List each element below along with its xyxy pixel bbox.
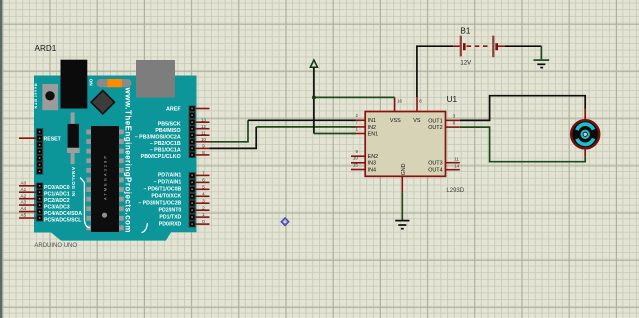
ARD1 AREF pin stub: [196, 108, 210, 110]
wire U1 OUT2 to motor bottom: [460, 127, 585, 162]
ARD1 ATmega328P chip legs: [86, 130, 123, 231]
svg-text:PD2/INT0: PD2/INT0: [159, 207, 182, 213]
svg-text:A2: A2: [21, 193, 27, 198]
ARD1 ATmega328P chip body: [91, 126, 119, 232]
svg-text:– PD7/AIN1: – PD7/AIN1: [154, 180, 182, 186]
ARD1 port B labels: [135, 121, 181, 160]
ARD1 silkscreen bracket analog: [80, 178, 90, 228]
svg-text:0: 0: [202, 219, 205, 224]
ARD1 digital pin stubs 7-0: [196, 175, 210, 224]
svg-text:5: 5: [202, 184, 205, 189]
svg-text:VS: VS: [413, 118, 421, 124]
svg-text:PC2/ADC2: PC2/ADC2: [44, 198, 70, 204]
ARD1 analog pin stubs A0-A5: [19, 186, 36, 218]
svg-text:– PB3/MOSI/OC2A: – PB3/MOSI/OC2A: [135, 134, 181, 140]
battery B1 right lead: [498, 45, 505, 47]
svg-text:PD7/AIN1: PD7/AIN1: [158, 173, 181, 179]
svg-text:2: 2: [202, 205, 205, 210]
battery B1 cell 2 long plate: [492, 36, 494, 58]
svg-text:9: 9: [202, 144, 205, 149]
ARD1 ON label: [89, 79, 94, 87]
svg-text:A1: A1: [21, 187, 27, 192]
ARD1 crystal diamond: [91, 91, 114, 114]
svg-text:13: 13: [201, 117, 207, 122]
svg-text:Reset BTN: Reset BTN: [33, 84, 38, 109]
svg-text:6: 6: [202, 178, 205, 183]
ARD1 digital pin numbers 13-8: [201, 117, 207, 155]
svg-text:3: 3: [202, 198, 205, 203]
ARD1 electrolytic capacitor: [71, 113, 75, 165]
ground symbol at battery: [534, 59, 550, 61]
svg-text:www.TheEngineeringProjects.com: www.TheEngineeringProjects.com: [124, 87, 133, 233]
U1 pin name labels right: [428, 118, 442, 173]
svg-text:EN2: EN2: [368, 154, 379, 160]
svg-text:8: 8: [419, 98, 422, 103]
ARD1 digital pin numbers 7-0: [202, 171, 205, 225]
ARD1 silkscreen bracket digital lower: [142, 223, 148, 233]
svg-text:PC5/ADC5/SCL: PC5/ADC5/SCL: [44, 217, 82, 223]
svg-text:PC0/ADC0: PC0/ADC0: [44, 185, 70, 191]
ARD1 analog pin names A0-A5: [21, 180, 27, 217]
svg-text:ON: ON: [89, 79, 94, 87]
ARD1 ANALOG IN label: [71, 167, 76, 197]
svg-text:IN2: IN2: [368, 125, 376, 131]
svg-text:7: 7: [355, 120, 358, 125]
svg-text:A4: A4: [21, 206, 27, 211]
U1 left pin numbers: [353, 113, 359, 167]
svg-text:PB5/SCK: PB5/SCK: [158, 121, 181, 127]
svg-text:A0: A0: [21, 180, 27, 185]
ARD1 power header strip: [36, 128, 43, 174]
U1 right pin stubs 3,6,11,14: [446, 120, 460, 169]
sheet left edge strip: [0, 0, 2, 318]
ARD1 upper right header strip: [189, 106, 196, 158]
svg-text:IN4: IN4: [368, 167, 376, 173]
origin marker: [281, 218, 289, 226]
svg-text:U1: U1: [447, 95, 458, 104]
wire battery B1 to ground: [505, 45, 541, 47]
svg-text:OUT3: OUT3: [428, 161, 442, 167]
ARD1 ATMEGA328P chip marking: [103, 156, 107, 200]
wire power terminal down to EN1 row: [313, 67, 315, 133]
ground symbol below U1: [395, 221, 409, 229]
motor bottom terminal stub: [584, 148, 586, 157]
svg-text:1: 1: [355, 126, 358, 131]
U1 pin 16 VSS stub: [394, 97, 396, 111]
svg-text:ARDUINO UNO: ARDUINO UNO: [34, 243, 77, 249]
junction node at power branch: [312, 96, 315, 99]
svg-text:– PB2/OC1B: – PB2/OC1B: [150, 141, 181, 147]
svg-text:ANALOG IN: ANALOG IN: [71, 167, 76, 197]
power terminal arrow: [310, 60, 317, 67]
svg-text:4: 4: [202, 191, 205, 196]
svg-text:11: 11: [454, 156, 459, 161]
svg-text:OUT4: OUT4: [428, 168, 442, 174]
wire battery ground drop: [540, 46, 542, 59]
wire D10 to U1 IN1 (black run): [248, 119, 356, 121]
svg-text:– PD6/T1/OC0B: – PD6/T1/OC0B: [144, 187, 182, 193]
wire D10 to U1 IN1 (green run): [210, 120, 249, 142]
ARD1 DC barrel jack: [61, 60, 88, 109]
battery B1 cell 1 long plate: [460, 36, 462, 57]
svg-text:A3: A3: [21, 200, 27, 205]
svg-text:A5: A5: [21, 213, 27, 218]
ARD1 port D labels: [138, 173, 181, 228]
U1 top pin name labels: [390, 118, 421, 124]
ARD1 Reset BTN label: [33, 84, 38, 109]
svg-text:10: 10: [353, 156, 359, 161]
motor hub: [582, 131, 589, 138]
svg-text:B1: B1: [460, 26, 470, 35]
svg-text:PD0/RXD: PD0/RXD: [159, 221, 182, 227]
wire to U1 EN1: [314, 133, 356, 135]
wire U1 OUT1 to motor top: [460, 96, 585, 121]
U1 pin 8 VS stub: [416, 97, 418, 111]
op-amp driver U1 L293D body: [365, 112, 445, 177]
svg-text:– PB1/OC1A: – PB1/OC1A: [150, 148, 181, 154]
svg-text:16: 16: [397, 98, 403, 103]
ARD1 digital pin stubs 13-8: [196, 122, 210, 155]
battery B1 dashed link: [467, 45, 491, 47]
svg-text:10: 10: [201, 137, 207, 142]
svg-text:PD1/TXD: PD1/TXD: [159, 214, 181, 220]
svg-text:RESET: RESET: [44, 137, 62, 143]
svg-text:14: 14: [454, 163, 460, 168]
U1 pin name labels left: [368, 118, 379, 173]
svg-text:AREF: AREF: [166, 107, 181, 113]
svg-text:9: 9: [355, 149, 358, 154]
ARD1 USB connector: [136, 60, 175, 98]
svg-text:PB4/MISO: PB4/MISO: [155, 128, 180, 134]
battery B1 left lead: [453, 45, 460, 47]
svg-text:IN1: IN1: [368, 118, 376, 124]
svg-text:OUT2: OUT2: [428, 125, 442, 131]
wire D9 to U1 IN2 (black run): [210, 127, 257, 148]
U1 GND pin stub: [401, 176, 403, 192]
svg-text:OUT1: OUT1: [428, 118, 442, 124]
svg-text:3: 3: [453, 114, 456, 119]
ARD1 RESET pin stub: [19, 137, 36, 139]
svg-text:7: 7: [202, 171, 205, 176]
svg-text:VSS: VSS: [390, 118, 401, 124]
ARD1 analog port labels: [44, 185, 82, 223]
svg-text:8: 8: [202, 150, 205, 155]
svg-text:1: 1: [202, 212, 205, 217]
motor body: [571, 120, 599, 148]
svg-text:EN1: EN1: [368, 131, 379, 137]
svg-text:12: 12: [201, 124, 207, 129]
U1 GND pin name label: [401, 163, 407, 175]
ARD1 power LED: [97, 79, 132, 87]
svg-text:11: 11: [201, 130, 206, 135]
svg-text:PD4/T0/XCK: PD4/T0/XCK: [151, 194, 181, 200]
svg-text:6: 6: [453, 121, 456, 126]
wire branch to U1 VSS pin16: [314, 96, 395, 98]
svg-text:PB0/ICP1/CLKO: PB0/ICP1/CLKO: [141, 154, 181, 160]
U1 right pin numbers: [453, 114, 460, 169]
svg-text:GND: GND: [401, 163, 407, 175]
svg-text:IN3: IN3: [368, 161, 376, 167]
svg-text:PC3/ADC3: PC3/ADC3: [44, 204, 70, 210]
svg-text:L293D: L293D: [446, 188, 464, 194]
svg-text:ARD1: ARD1: [35, 44, 57, 53]
battery B1 cell 2 short plate: [495, 43, 498, 50]
wire D9 to U1 IN2 (green run): [256, 126, 355, 128]
U1 left pin stubs 2,7,1,9,10,15: [351, 120, 365, 169]
wire battery B1 to U1 VS pin8: [417, 46, 453, 97]
ARD1 www.TheEngineeringProjects.com silkscreen: [124, 87, 133, 233]
battery B1 cell 1 short plate: [463, 43, 466, 50]
Arduino UNO ARD1 board body: [34, 76, 197, 241]
ARD1 lower right header strip: [189, 172, 196, 227]
svg-text:2: 2: [355, 113, 358, 118]
wire U1 GND to ground: [401, 192, 403, 220]
ARD1 analog header strip: [36, 183, 43, 222]
motor rotor arcs: [577, 124, 594, 130]
svg-text:15: 15: [353, 162, 359, 167]
svg-text:PC4/ADC4/SDA: PC4/ADC4/SDA: [44, 211, 82, 217]
motor top terminal stub: [584, 109, 586, 121]
ARD1 reset button: [42, 84, 58, 110]
svg-text:– PD3/INT1/OC2B: – PD3/INT1/OC2B: [138, 200, 181, 206]
svg-text:PC1/ADC1: PC1/ADC1: [44, 192, 70, 198]
svg-text:12V: 12V: [460, 61, 471, 67]
